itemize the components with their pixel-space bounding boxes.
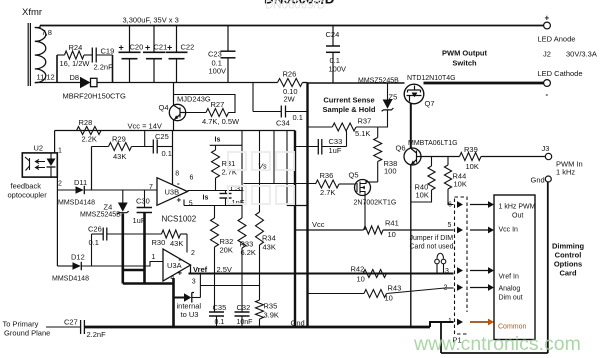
- capacitor C19: [91, 48, 93, 63]
- svg-text:43K: 43K: [263, 243, 276, 252]
- wire D11 node line: [57, 189, 75, 191]
- svg-text:Jumper if DIM: Jumper if DIM: [410, 235, 454, 242]
- connector J2 LED Anode circle: [544, 22, 551, 29]
- wire rail sense bus to Q7: [308, 82, 405, 84]
- wire C33 right: [322, 146, 347, 148]
- svg-text:Current Sense: Current Sense: [323, 96, 374, 105]
- svg-text:10: 10: [388, 230, 396, 239]
- wire snubber top right: [96, 54, 112, 56]
- svg-text:+: +: [145, 43, 150, 53]
- transistor Q4 MJD243G: [169, 104, 185, 120]
- svg-text:2.2K: 2.2K: [82, 135, 97, 144]
- svg-text:2.2nF: 2.2nF: [94, 63, 114, 72]
- transformer core: [27, 23, 29, 86]
- svg-text:R29: R29: [112, 135, 126, 144]
- svg-text:Vcc = 14V: Vcc = 14V: [128, 122, 162, 131]
- connector J2 LED Cathode circle: [544, 80, 551, 87]
- svg-text:43K: 43K: [170, 239, 183, 248]
- capacitor C22 wires: [176, 26, 178, 53]
- svg-text:Xfmr: Xfmr: [22, 7, 42, 18]
- svg-text:LED Anode: LED Anode: [538, 35, 576, 44]
- svg-text:Is: Is: [203, 195, 209, 202]
- wire R43 row: [308, 293, 365, 295]
- svg-text:10nF: 10nF: [237, 319, 253, 326]
- wire U2 pin1 from Vcc line: [54, 131, 56, 154]
- connector Gnd circle: [545, 176, 551, 182]
- svg-text:Z4: Z4: [104, 203, 113, 212]
- svg-text:8: 8: [175, 171, 179, 178]
- svg-text:Options: Options: [554, 260, 582, 269]
- wire R37 to R38: [356, 126, 378, 128]
- P1 arrow row common (orange): [457, 319, 463, 326]
- resistor R40: [431, 157, 433, 167]
- wire Z5 bottom: [378, 111, 388, 128]
- svg-text:C19: C19: [101, 47, 115, 56]
- wire column x=287: [286, 131, 288, 206]
- U2 phototransistor: [25, 157, 30, 171]
- svg-text:R28: R28: [79, 118, 93, 127]
- svg-text:Vref In: Vref In: [499, 274, 519, 281]
- svg-text:MJD243G: MJD243G: [177, 95, 211, 104]
- svg-text:To Primary: To Primary: [3, 320, 39, 329]
- resistor R30: [162, 230, 181, 238]
- svg-text:2.7K: 2.7K: [222, 168, 237, 177]
- svg-text:C30: C30: [136, 197, 150, 206]
- transformer secondary winding: [35, 28, 46, 83]
- svg-text:feedback: feedback: [11, 182, 42, 191]
- capacitor C20 plates: [119, 51, 141, 53]
- wire Vs column: [259, 131, 261, 211]
- wire mystery column x=274: [273, 131, 275, 184]
- svg-text:5.1K: 5.1K: [355, 129, 370, 138]
- U3A pin4 to ground: [172, 278, 175, 327]
- svg-text:R42: R42: [351, 265, 365, 274]
- diode internal to U3: [184, 293, 191, 302]
- svg-text:2.7K: 2.7K: [320, 188, 335, 197]
- svg-text:0.1: 0.1: [89, 238, 99, 247]
- svg-text:Dimming: Dimming: [552, 242, 585, 251]
- svg-text:2.5V: 2.5V: [217, 265, 232, 274]
- wire R26 to sense bus: [303, 82, 308, 84]
- svg-text:LED Cathode: LED Cathode: [538, 69, 583, 78]
- svg-text:R35: R35: [264, 302, 278, 311]
- wire R41 to pin5: [383, 229, 454, 231]
- wire ground loop bottom: [441, 352, 548, 354]
- wire ground lead: [46, 326, 81, 328]
- resistor R43: [364, 290, 387, 298]
- resistor R27: [206, 109, 229, 117]
- optocoupler U2 box: [22, 153, 57, 177]
- capacitor C23 wires: [227, 26, 229, 52]
- resistor R24: [65, 51, 85, 59]
- wire ground to P1 pin1: [430, 322, 454, 327]
- svg-text:-: -: [546, 90, 549, 99]
- svg-text:Gnd: Gnd: [291, 319, 305, 328]
- wire C33 left: [295, 146, 318, 148]
- svg-text:3,300uF, 35V x 3: 3,300uF, 35V x 3: [123, 16, 179, 25]
- wire Q6 emitter to ground: [410, 165, 412, 327]
- svg-text:10K: 10K: [416, 191, 429, 200]
- resistor R42: [363, 270, 387, 278]
- svg-text:6: 6: [448, 202, 452, 209]
- svg-text:0.1: 0.1: [162, 149, 172, 158]
- C30 top lead: [144, 190, 146, 208]
- capacitor C33: [317, 139, 319, 155]
- op-amp U3A: [163, 249, 191, 281]
- connector P1 dashed box: [455, 197, 468, 334]
- resistor R41: [364, 226, 384, 234]
- svg-text:6.2K: 6.2K: [241, 248, 256, 257]
- svg-text:-: -: [179, 255, 182, 264]
- transistor Q5 2N7002KT1G: [355, 180, 371, 196]
- svg-text:Card not used: Card not used: [410, 244, 454, 251]
- capacitor C26: [102, 228, 104, 241]
- svg-text:DN06069/D: DN06069/D: [265, 0, 325, 12]
- svg-text:1: 1: [152, 254, 156, 261]
- transistor Q6 MMBTA06LT1G: [404, 148, 421, 165]
- svg-text:R27: R27: [211, 100, 225, 109]
- wire D11 to U3B pin7: [84, 189, 157, 191]
- wire R36 to Q5 gate: [339, 183, 355, 185]
- P1 arrow pair row 4: [457, 284, 463, 291]
- svg-text:Analog: Analog: [499, 286, 521, 293]
- svg-text:R43: R43: [388, 284, 402, 293]
- resistor R44: [447, 157, 449, 166]
- svg-text:Control: Control: [555, 251, 582, 260]
- wire Vref line: [189, 273, 454, 275]
- jumper loop: [437, 253, 444, 258]
- connector J3 circle: [545, 153, 551, 159]
- capacitor C22 plates: [166, 51, 188, 53]
- wire Q5 drain to R38: [366, 181, 378, 183]
- svg-text:1uF: 1uF: [329, 146, 342, 155]
- op-amp U3B: [157, 178, 188, 206]
- svg-text:Sample & Hold: Sample & Hold: [323, 105, 376, 114]
- resistor R38: [374, 138, 382, 162]
- wire C34 right leg: [286, 111, 308, 113]
- wire R27 to collector top: [174, 95, 236, 113]
- wire R39 to J3: [481, 156, 545, 158]
- svg-text:2.2nF: 2.2nF: [87, 330, 107, 339]
- transistor Q7 NTD12N10T4G: [404, 84, 424, 104]
- svg-text:5: 5: [448, 222, 452, 229]
- svg-text:11,12: 11,12: [37, 73, 55, 82]
- U2 LED: [50, 153, 52, 159]
- svg-text:C25: C25: [155, 132, 169, 141]
- svg-text:16, 1/2W: 16, 1/2W: [60, 59, 91, 68]
- svg-text:10K: 10K: [454, 180, 467, 189]
- dimming card option box: [494, 195, 535, 340]
- svg-text:Switch: Switch: [452, 59, 477, 68]
- svg-text:R37: R37: [358, 117, 372, 126]
- resistor R39: [460, 153, 482, 161]
- svg-text:optocoupler: optocoupler: [8, 191, 48, 200]
- wire Vcc row: [295, 229, 364, 231]
- wire top rail (+) to LED Anode: [40, 25, 544, 27]
- wire Q6 base line to R39: [421, 156, 460, 158]
- svg-text:C27: C27: [64, 318, 78, 327]
- wire R36 row line: [244, 183, 316, 185]
- svg-text:Q4: Q4: [159, 103, 169, 112]
- wire sense bus x=307.5: [306, 83, 308, 328]
- P1 arrow pair row 1: [457, 201, 463, 208]
- svg-text:www.cntronics.com: www.cntronics.com: [413, 333, 581, 355]
- svg-text:PWM Output: PWM Output: [442, 49, 487, 58]
- wire lower rail D8 to R26: [97, 82, 278, 84]
- jumper posts: [435, 259, 440, 264]
- resistor R32: [214, 206, 216, 219]
- svg-text:Vref: Vref: [193, 265, 208, 274]
- svg-text:2: 2: [191, 250, 195, 257]
- svg-text:MMSZ5245B: MMSZ5245B: [80, 212, 121, 219]
- wire C34 left leg: [252, 83, 254, 112]
- wire R37 left: [308, 126, 333, 128]
- svg-text:1nF: 1nF: [232, 198, 245, 207]
- wire Q4 collector to rail: [173, 83, 175, 106]
- wire snubber left leg: [56, 55, 58, 83]
- svg-text:5: 5: [189, 201, 193, 208]
- svg-text:R39: R39: [464, 145, 478, 154]
- P1 arrow pair row 3: [457, 267, 463, 274]
- faint watermark blobs: [228, 152, 294, 204]
- wire Vcc 14V line: [55, 130, 295, 132]
- svg-text:D12: D12: [71, 253, 85, 262]
- svg-text:Common: Common: [498, 324, 527, 331]
- svg-text:2W: 2W: [284, 95, 296, 104]
- svg-text:C24: C24: [326, 30, 340, 39]
- resistor R37: [332, 123, 356, 131]
- wire Q4 base to R27: [186, 112, 206, 114]
- wire Z5 top: [387, 83, 389, 100]
- svg-text:NTD12N10T4G: NTD12N10T4G: [407, 75, 456, 82]
- wire R24 to C19: [84, 54, 92, 56]
- svg-text:100V: 100V: [209, 67, 227, 76]
- wire internal diode row: [174, 297, 185, 299]
- svg-text:MMBTA06LT1G: MMBTA06LT1G: [408, 140, 458, 147]
- svg-text:10: 10: [385, 294, 393, 303]
- svg-text:C35: C35: [213, 303, 227, 312]
- resistor R33: [241, 131, 243, 219]
- svg-text:D8: D8: [70, 73, 80, 82]
- svg-text:MBRF20H150CTG: MBRF20H150CTG: [63, 92, 127, 101]
- svg-text:100V: 100V: [329, 65, 347, 74]
- svg-text:+: +: [177, 196, 182, 205]
- wire Q7 source down to Q6: [410, 104, 412, 149]
- resistor R36: [316, 180, 340, 188]
- wire Vcc bus x=295: [294, 131, 296, 328]
- svg-text:30V/3.3A: 30V/3.3A: [566, 50, 597, 59]
- svg-text:MMSD4148: MMSD4148: [58, 200, 95, 207]
- svg-text:Vcc In: Vcc In: [499, 227, 519, 234]
- svg-text:1 kHz PWM: 1 kHz PWM: [499, 204, 536, 211]
- wire C25 to Vcc drop: [157, 146, 172, 148]
- wire internal diode to Vref: [192, 297, 201, 299]
- wire R29 left leg: [92, 146, 109, 148]
- resistor R34: [259, 210, 261, 212]
- svg-text:-: -: [177, 179, 180, 188]
- diode D8 MBRF20H150CTG: [80, 77, 91, 88]
- svg-text:Q6: Q6: [396, 144, 406, 153]
- svg-text:C20: C20: [130, 43, 144, 52]
- white patch over Common row: [466, 312, 513, 333]
- svg-text:Q7: Q7: [425, 99, 435, 108]
- wire R29 junction to D11 line: [91, 147, 93, 191]
- wire Z4 top: [122, 190, 124, 203]
- resistor R29: [109, 143, 132, 151]
- wire Q5 source down: [364, 196, 366, 231]
- resistor R26: [278, 79, 303, 87]
- svg-text:10: 10: [357, 275, 365, 284]
- svg-text:R26: R26: [283, 70, 297, 79]
- svg-text:1 kHz: 1 kHz: [556, 168, 575, 177]
- svg-text:7: 7: [149, 184, 153, 191]
- wire C26 to R30: [107, 233, 162, 235]
- capacitor C31: [220, 193, 232, 195]
- capacitor C23 plates: [221, 50, 236, 52]
- svg-text:3.9K: 3.9K: [264, 311, 279, 320]
- wire pin5 line: [184, 205, 242, 207]
- svg-text:C23: C23: [208, 50, 222, 59]
- diode D11 MMSD4148: [76, 186, 84, 194]
- capacitor C25: [152, 140, 154, 154]
- svg-text:C33: C33: [329, 137, 343, 146]
- wire thick ground link y=283.5: [123, 282, 174, 285]
- svg-text:Q5: Q5: [349, 171, 359, 180]
- svg-text:C21: C21: [154, 43, 168, 52]
- wire thick link y=270: [123, 269, 145, 272]
- wire snubber top left: [57, 54, 65, 56]
- wire C26 line from D12 node: [92, 233, 104, 235]
- wire Z4 bottom bus: [122, 214, 125, 284]
- svg-text:to U3: to U3: [181, 310, 199, 319]
- capacitor C34: [280, 106, 282, 118]
- svg-text:0.1: 0.1: [215, 319, 225, 326]
- wire ground loop left: [440, 322, 442, 353]
- wire R29 to C25: [132, 146, 154, 148]
- svg-text:MMSZ5245B: MMSZ5245B: [358, 78, 399, 85]
- capacitor C24 plates: [326, 45, 340, 47]
- wire C30 bottom bus: [143, 213, 146, 284]
- svg-text:C34: C34: [276, 119, 290, 128]
- capacitor C30: [137, 207, 152, 209]
- svg-text:7,8: 7,8: [42, 28, 52, 37]
- wire row y=285.5: [200, 285, 259, 287]
- jumper stubs: [436, 264, 438, 274]
- capacitor C21 wires: [153, 26, 155, 53]
- svg-text:Gnd: Gnd: [531, 176, 545, 185]
- wire U3B output (Is node): [188, 190, 243, 192]
- P1 arrow pair row 2: [457, 227, 463, 234]
- svg-text:1: 1: [448, 318, 452, 325]
- svg-text:Z5: Z5: [389, 93, 398, 102]
- wire Q4 emitter down: [173, 120, 175, 131]
- svg-text:6: 6: [190, 175, 194, 182]
- svg-text:2: 2: [58, 181, 62, 188]
- svg-text:J2: J2: [543, 50, 551, 59]
- svg-text:+: +: [119, 43, 124, 53]
- svg-text:1: 1: [58, 148, 62, 155]
- capacitor C20 wires: [129, 26, 131, 53]
- resistor R28: [77, 127, 102, 135]
- capacitor C32: [235, 311, 250, 313]
- wire R30 to U3A pin2: [181, 233, 188, 235]
- svg-text:4.7K, 0.5W: 4.7K, 0.5W: [202, 117, 240, 126]
- svg-text:20K: 20K: [220, 246, 233, 255]
- svg-text:U2: U2: [34, 144, 44, 153]
- wire U2 pin2 down: [56, 177, 58, 266]
- svg-text:R34: R34: [262, 234, 276, 243]
- svg-text:Vcc: Vcc: [312, 220, 325, 229]
- svg-text:2N7002KT1G: 2N7002KT1G: [354, 200, 397, 207]
- svg-text:Card: Card: [559, 269, 577, 278]
- wire Gnd down right side: [547, 182, 549, 353]
- U3A output stub to Vref line: [190, 265, 192, 274]
- svg-text:C22: C22: [181, 43, 195, 52]
- svg-text:C32: C32: [237, 303, 251, 312]
- wire rail to D8: [57, 82, 80, 84]
- wire Vcc drop to U3B pin8: [172, 131, 174, 185]
- svg-text:C26: C26: [88, 225, 102, 234]
- zener Z4 MMSZ5245B: [118, 203, 128, 212]
- svg-text:+: +: [167, 43, 172, 53]
- svg-text:D11: D11: [74, 178, 87, 187]
- resistor R31: [215, 145, 217, 150]
- wire D12 to U3A pin1: [81, 262, 163, 267]
- capacitor C24 wires: [332, 26, 334, 47]
- wire primary ground bus: [84, 326, 430, 329]
- wire xfmr bottom lead: [35, 82, 57, 84]
- wire Q7 drain to LED cathode rail: [424, 82, 545, 85]
- wire bus link y=205.5: [287, 205, 308, 207]
- svg-text:NCS1002: NCS1002: [162, 215, 197, 224]
- svg-text:R24: R24: [69, 43, 83, 52]
- wire xfmr top lead: [35, 26, 40, 28]
- resistor R35: [256, 300, 264, 319]
- svg-text:R41: R41: [385, 219, 399, 228]
- svg-text:Out: Out: [512, 213, 523, 220]
- svg-text:3: 3: [192, 279, 196, 286]
- svg-text:0.1: 0.1: [293, 113, 303, 122]
- svg-text:MMSD4148: MMSD4148: [52, 276, 89, 283]
- wire Is line: [210, 144, 242, 146]
- wire Vcc bus drop x=144.7: [144, 131, 146, 147]
- svg-text:+: +: [545, 14, 550, 23]
- svg-text:2: 2: [444, 285, 448, 292]
- svg-text:Ground Plane: Ground Plane: [4, 329, 50, 338]
- svg-text:3: 3: [445, 268, 449, 275]
- capacitor C35: [209, 311, 224, 313]
- svg-text:J3: J3: [542, 144, 550, 153]
- zener Z5 MMSZ5245B: [383, 100, 393, 109]
- svg-text:100: 100: [384, 167, 397, 176]
- svg-text:10K: 10K: [466, 162, 479, 171]
- svg-text:Dim out: Dim out: [499, 295, 523, 302]
- svg-text:Is: Is: [215, 137, 221, 144]
- wire snubber right leg: [112, 55, 114, 83]
- svg-text:R36: R36: [320, 171, 334, 180]
- capacitor C21 plates: [143, 51, 165, 53]
- U2 arrows: [36, 160, 46, 170]
- capacitor C27: [80, 320, 82, 334]
- svg-text:R30: R30: [152, 238, 166, 247]
- svg-text:+: +: [178, 269, 183, 278]
- U3B pin5 stub: [183, 200, 185, 206]
- svg-text:43K: 43K: [113, 152, 126, 161]
- diode D12 MMSD4148: [57, 265, 72, 267]
- wire R43 to pin2: [387, 288, 446, 294]
